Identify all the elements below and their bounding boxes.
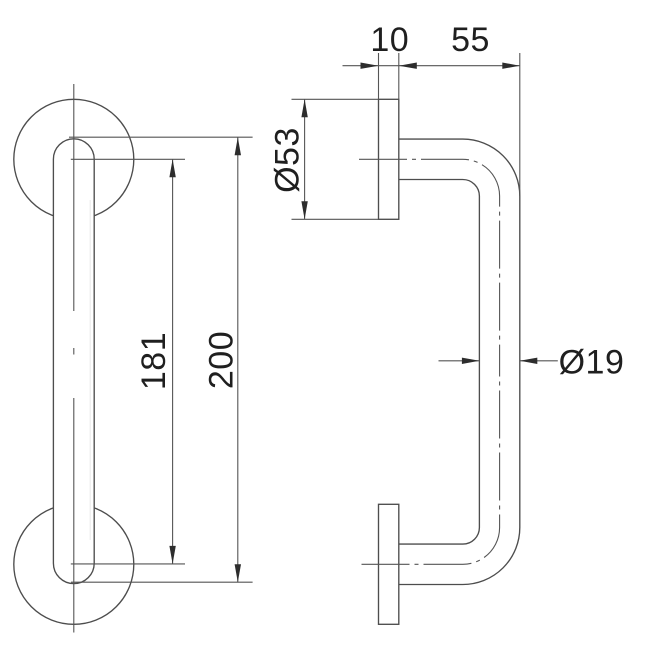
tube outer outline (side view) — [399, 139, 520, 584]
dimension line 200 — [237, 137, 239, 582]
svg-text:Ø53: Ø53 — [269, 127, 307, 193]
svg-text:55: 55 — [451, 21, 490, 59]
arrowhead 181 top — [169, 159, 175, 177]
dimension line D53 — [304, 99, 306, 219]
arrowhead 10/55 middle — [399, 63, 417, 69]
dimension line 181 — [172, 159, 174, 564]
dimension tail line 10 — [343, 65, 379, 67]
arrowhead 181 bottom — [169, 546, 175, 564]
top rose circle (front view, D53 mounting rose) — [14, 99, 134, 219]
bottom rose circle (front view, D53 mounting rose) — [14, 504, 134, 624]
arrowhead 200 bottom — [235, 564, 241, 582]
svg-text:200: 200 — [203, 331, 241, 389]
arrowhead D53 top — [301, 99, 307, 117]
arrowhead D19 right — [520, 358, 538, 364]
handle grip bar (front view, rounded tube ends) — [53, 139, 94, 584]
dimension line 55 — [379, 65, 520, 67]
extension line, tube outer face (55 dim) — [519, 53, 521, 196]
tube centerline upper half (dash-dot) — [359, 159, 500, 361]
svg-text:181: 181 — [135, 332, 173, 390]
extension line, plate top (D53 dim) — [292, 98, 379, 100]
vertical centerline lower segment (left view) — [73, 398, 75, 633]
extension line, plate right face (10 dim) — [398, 53, 400, 99]
vertical centerline dot segment (left view) — [73, 348, 75, 355]
tube inner outline (side view) — [399, 180, 480, 545]
arrowhead 55 right — [502, 63, 520, 69]
extension line, top rose center (181 dim) — [71, 158, 185, 160]
extension line, bottom of handle (200 dim) — [71, 581, 253, 583]
dimension tail line D19 right — [520, 360, 558, 362]
arrowhead D19 left — [462, 358, 480, 364]
svg-text:Ø19: Ø19 — [559, 344, 625, 382]
arrowhead 200 top — [235, 137, 241, 155]
tube centerline lower half (dash-dot) — [362, 361, 500, 564]
highlight line on grip bar — [89, 200, 91, 540]
top mounting plate (side view) — [379, 99, 399, 219]
svg-text:10: 10 — [370, 21, 409, 59]
arrowhead 10 left — [361, 63, 379, 69]
arrowhead D53 bottom — [301, 201, 307, 219]
extension line, plate left face (10 dim) — [378, 53, 380, 99]
vertical centerline upper segment (left view) — [73, 84, 75, 311]
extension line, bottom rose center (181 dim) — [71, 563, 185, 565]
bottom mounting plate (side view) — [379, 504, 399, 624]
dimension tail line D19 left — [439, 360, 480, 362]
extension line, top of handle (200 dim) — [69, 136, 253, 138]
extension line, plate bottom (D53 dim) — [292, 218, 379, 220]
